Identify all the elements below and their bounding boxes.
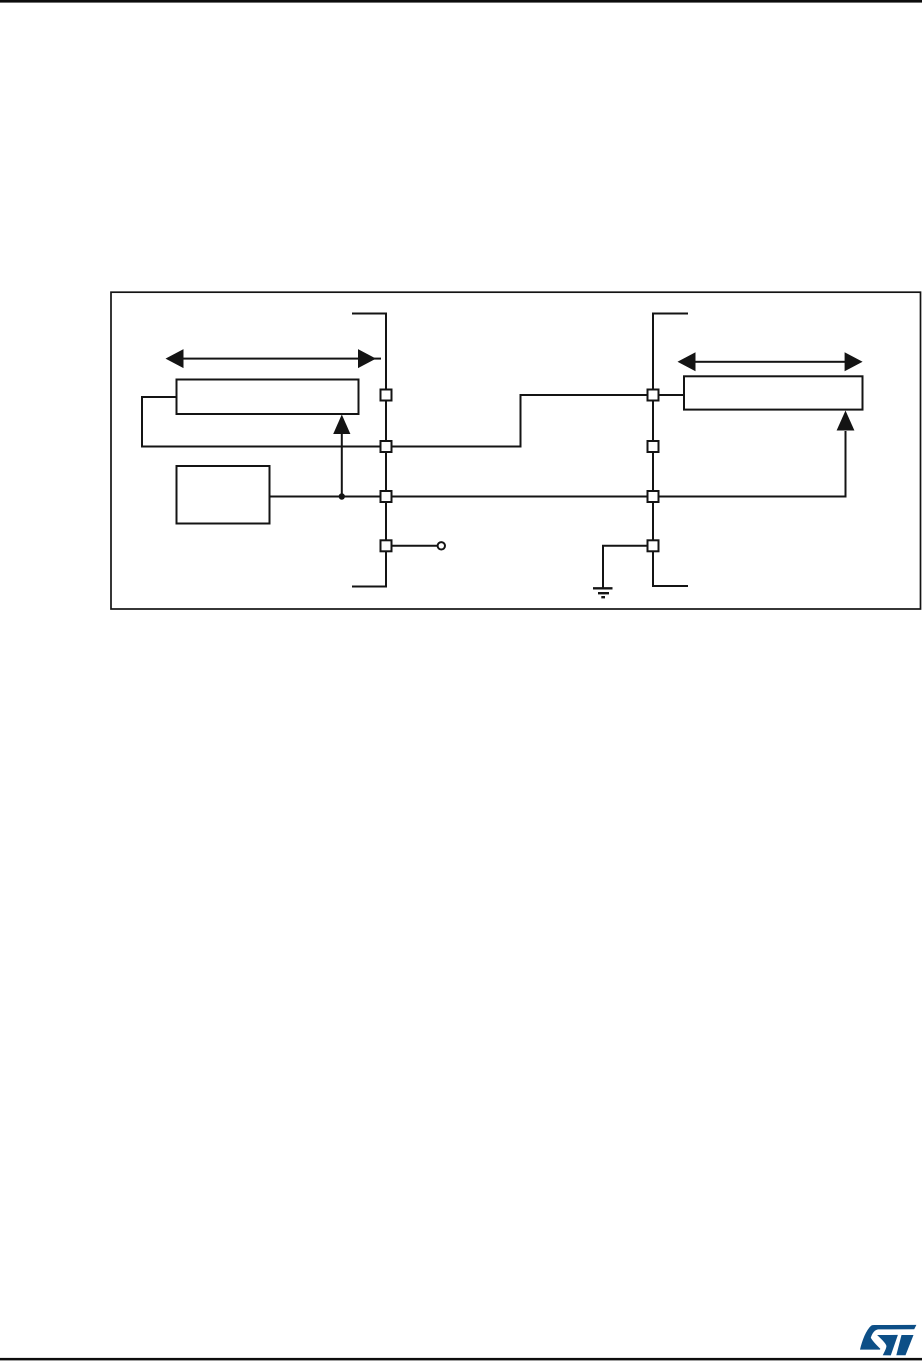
box U1 left [177, 380, 359, 415]
wire net2 rect3 to right arrow [270, 432, 846, 497]
pin node R4 [648, 540, 659, 551]
wire to ground [603, 546, 653, 587]
box U2 right [684, 376, 863, 409]
left bus J1 [353, 314, 386, 587]
open terminal circle [438, 542, 445, 549]
pin node L4 [381, 540, 392, 551]
pin node R2 [648, 441, 659, 452]
pin node L2 [381, 441, 392, 452]
ST logo [860, 1325, 916, 1356]
pin node R1 [648, 390, 659, 401]
pin node R3 [648, 491, 659, 502]
ground symbol [593, 588, 613, 597]
header rule [0, 0, 922, 3]
pin node L3 [381, 491, 392, 502]
figure frame [111, 292, 921, 609]
up arrowhead left [333, 415, 350, 435]
pin squares left bus [381, 390, 659, 552]
junction dot [339, 493, 345, 499]
double arrow left [166, 349, 382, 368]
wire net1 rect1 to bus to rect2 [142, 395, 684, 447]
pin node L1 [381, 390, 392, 401]
footer rule [0, 1358, 922, 1361]
double arrow right [678, 352, 863, 371]
box U3 small left [177, 466, 270, 524]
right bus J2 [653, 314, 687, 587]
wire stub to open terminal [386, 545, 437, 547]
up arrow stem left [341, 433, 343, 497]
up arrowhead right [837, 411, 855, 431]
